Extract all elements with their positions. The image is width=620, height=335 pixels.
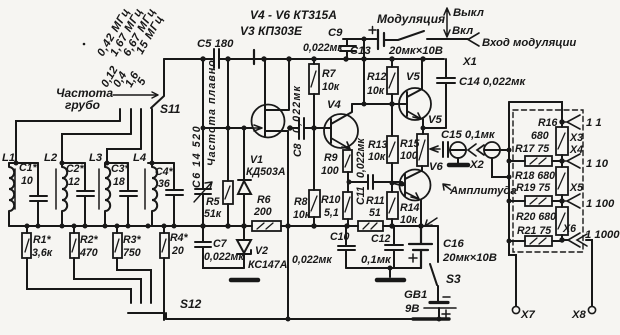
svg-text:С10: С10 xyxy=(330,231,350,243)
resistor R11 xyxy=(358,221,383,231)
ground under C10 C12 C16 xyxy=(377,278,404,283)
svg-text:10к: 10к xyxy=(400,214,418,226)
capacitor C4* xyxy=(166,163,183,226)
svg-text:10к: 10к xyxy=(322,81,340,93)
svg-text:С12: С12 xyxy=(371,233,391,245)
svg-text:грубо: грубо xyxy=(65,98,100,112)
svg-text:3,6к: 3,6к xyxy=(32,247,53,259)
transistor V6 xyxy=(400,170,431,201)
transistor V4 xyxy=(324,114,358,148)
capacitor C10 xyxy=(338,226,355,268)
attenuator input top wire xyxy=(509,102,562,122)
amplitude arrow xyxy=(443,184,451,190)
switch S3 xyxy=(430,264,437,285)
svg-text:0,1мк: 0,1мк xyxy=(361,254,392,266)
capacitor C11 xyxy=(348,175,402,189)
svg-text:КД503А: КД503А xyxy=(246,166,286,178)
svg-text:R2*: R2* xyxy=(80,234,99,246)
on/off arrow xyxy=(444,8,450,37)
resistor R15 potentiometer xyxy=(417,134,428,166)
inductor L2 xyxy=(62,163,67,226)
svg-text:С15 0,1мк: С15 0,1мк xyxy=(441,129,496,141)
capacitor C9 xyxy=(340,39,356,59)
diode V1 xyxy=(238,128,251,226)
svg-text:С3*: С3* xyxy=(111,163,130,175)
svg-text:С4*: С4* xyxy=(155,166,174,178)
svg-text:1 100: 1 100 xyxy=(586,198,615,210)
wire S11 to L3 xyxy=(107,149,141,163)
resistor R6 xyxy=(252,221,281,231)
svg-text:R19 75: R19 75 xyxy=(516,182,551,194)
amplitude arrow to emitter junction xyxy=(425,218,437,226)
svg-text:V4 - V6 КТ315А: V4 - V6 КТ315А xyxy=(250,8,337,22)
resistor R18 xyxy=(556,167,568,195)
svg-text:R7: R7 xyxy=(322,68,337,80)
svg-text:R6: R6 xyxy=(257,194,271,206)
wire S11 to L2 xyxy=(62,134,131,163)
svg-text:R5: R5 xyxy=(206,196,221,208)
svg-text:С6 14 520: С6 14 520 xyxy=(191,125,203,188)
svg-text:0,022мк: 0,022мк xyxy=(292,254,332,266)
svg-text:Х6: Х6 xyxy=(562,223,576,235)
svg-text:Вход модуляции: Вход модуляции xyxy=(482,37,576,49)
svg-text:0,022мк: 0,022мк xyxy=(355,138,367,178)
switch modulation xyxy=(384,31,468,40)
svg-text:Х4: Х4 xyxy=(569,144,583,156)
connector X1 fork xyxy=(468,33,479,46)
connector X2 plug xyxy=(450,142,466,158)
S11 contacts xyxy=(120,109,152,163)
resistor R19 xyxy=(525,196,552,206)
svg-text:750: 750 xyxy=(123,247,141,259)
ground under X2 plug xyxy=(457,158,459,164)
svg-text:0,022мк: 0,022мк xyxy=(291,85,303,133)
svg-text:С8: С8 xyxy=(292,143,304,157)
resistor R2* xyxy=(70,233,79,258)
svg-text:5,1: 5,1 xyxy=(324,207,339,219)
svg-text:С13: С13 xyxy=(350,45,371,57)
node L2 top xyxy=(62,162,85,164)
socket X6 fork node 1:1000 xyxy=(568,233,587,247)
svg-text:10: 10 xyxy=(21,175,33,187)
svg-text:V5: V5 xyxy=(406,71,421,83)
resistor R17 xyxy=(525,156,552,166)
svg-text:10к: 10к xyxy=(293,209,311,221)
svg-text:V2: V2 xyxy=(255,245,268,257)
svg-text:V5: V5 xyxy=(428,114,443,126)
capacitor C16 electrolytic xyxy=(409,226,432,268)
capacitor C15 xyxy=(443,142,450,157)
wire S11 to L1 xyxy=(16,121,120,163)
node L4 top xyxy=(148,162,174,164)
svg-text:R18 680: R18 680 xyxy=(515,170,555,182)
svg-text:L3: L3 xyxy=(89,152,103,164)
svg-text:V1: V1 xyxy=(250,154,263,166)
svg-text:0,022мк: 0,022мк xyxy=(204,251,244,263)
svg-text:V3 КП303Е: V3 КП303Е xyxy=(240,24,303,38)
svg-text:470: 470 xyxy=(79,247,98,259)
main mid rail y226 xyxy=(9,225,438,227)
svg-text:Выкл: Выкл xyxy=(453,7,484,19)
ground under V2 xyxy=(231,278,258,283)
svg-text:S12: S12 xyxy=(180,297,202,311)
svg-text:С2*: С2* xyxy=(66,163,85,175)
switch S11 wiper xyxy=(151,59,164,108)
svg-text:Х1: Х1 xyxy=(462,56,477,68)
svg-text:R13: R13 xyxy=(368,139,388,151)
switch S12 wiper xyxy=(128,306,166,320)
gate wire xyxy=(203,127,252,129)
svg-text:R4*: R4* xyxy=(170,232,189,244)
svg-text:20мк×10В: 20мк×10В xyxy=(442,252,497,264)
svg-text:51к: 51к xyxy=(204,208,222,220)
resistor R8 xyxy=(309,190,320,217)
svg-text:1 1000: 1 1000 xyxy=(585,229,620,241)
capacitor C14 xyxy=(437,59,455,128)
wire to X8 xyxy=(586,240,592,306)
capacitor C12 xyxy=(385,226,403,268)
svg-text:R3*: R3* xyxy=(123,234,142,246)
svg-text:R15: R15 xyxy=(400,138,421,150)
capacitor C5 xyxy=(214,49,219,68)
resistor R20 xyxy=(556,207,568,235)
resistor R13 xyxy=(387,136,398,163)
svg-text:С14 0,022мк: С14 0,022мк xyxy=(459,76,526,88)
capacitor C13 electrolytic xyxy=(378,30,384,49)
svg-text:L4: L4 xyxy=(133,152,147,164)
wire bottom caps node xyxy=(346,268,421,277)
svg-text:51: 51 xyxy=(369,207,381,219)
svg-text:R12: R12 xyxy=(367,71,387,83)
wire V4 collector rail xyxy=(352,103,400,105)
svg-text:18: 18 xyxy=(113,176,125,188)
resistor R10 xyxy=(343,192,352,219)
inductor L4 xyxy=(152,163,157,226)
resistor R14 xyxy=(387,192,398,219)
svg-text:680: 680 xyxy=(531,130,549,142)
svg-text:КС147А: КС147А xyxy=(248,259,287,271)
capacitor C1* xyxy=(30,163,47,226)
svg-text:12: 12 xyxy=(68,176,80,188)
node tick end of osc rail xyxy=(253,50,255,64)
resistor R4* xyxy=(160,233,169,258)
svg-text:S11: S11 xyxy=(160,102,181,116)
svg-text:С5 180: С5 180 xyxy=(197,38,234,50)
inductor L1 xyxy=(9,163,14,226)
attenuator ground bus xyxy=(509,102,516,306)
svg-text:Х2: Х2 xyxy=(469,159,485,171)
svg-text:V6: V6 xyxy=(429,161,444,173)
svg-text:9В: 9В xyxy=(405,303,419,315)
svg-text:100: 100 xyxy=(321,165,339,177)
resistor R16 xyxy=(556,127,568,155)
svg-text:Х7: Х7 xyxy=(520,309,536,321)
svg-text:20мк×10В: 20мк×10В xyxy=(388,45,443,57)
resistor R5 xyxy=(223,181,233,204)
resistor R1* xyxy=(22,233,31,258)
svg-text:R16: R16 xyxy=(538,117,558,129)
connector X2 socket xyxy=(484,142,500,158)
node L1 top xyxy=(9,162,38,164)
svg-text:С1*: С1* xyxy=(19,162,38,174)
chevrons xyxy=(468,144,484,156)
svg-text:С16: С16 xyxy=(443,238,464,250)
svg-text:С7: С7 xyxy=(213,238,228,250)
inductor L3 xyxy=(105,163,110,226)
wire rail59 tap to collector wire xyxy=(363,59,365,104)
svg-text:V4: V4 xyxy=(327,99,342,111)
svg-text:10к: 10к xyxy=(368,151,386,163)
socket X4 fork node 1:10 xyxy=(562,154,580,168)
capacitor C8 xyxy=(288,118,324,139)
wire riser mid rail to ground rail xyxy=(287,226,289,319)
FET V3 xyxy=(252,105,285,138)
svg-text:100: 100 xyxy=(400,150,418,162)
svg-text:R20 680: R20 680 xyxy=(516,211,556,223)
socket X3 fork node 1:1 xyxy=(562,115,580,129)
svg-text:S3: S3 xyxy=(446,272,461,286)
transistor V5 xyxy=(399,88,431,120)
svg-text:Вкл: Вкл xyxy=(452,25,473,37)
terminal X7 xyxy=(512,306,519,313)
svg-text:С9: С9 xyxy=(328,27,343,39)
svg-text:1 1: 1 1 xyxy=(586,117,602,129)
svg-text:Х5: Х5 xyxy=(569,182,584,194)
terminal X8 xyxy=(588,306,595,313)
svg-text:R14: R14 xyxy=(400,202,420,214)
svg-text:R11: R11 xyxy=(366,195,385,207)
wire rail to S3 xyxy=(437,226,439,262)
resistor R12 xyxy=(387,67,398,94)
resistor R21 xyxy=(525,236,552,246)
socket X5 fork node 1:100 xyxy=(562,194,580,208)
svg-text:Амплитуда: Амплитуда xyxy=(449,185,517,197)
zener V2 xyxy=(237,226,251,268)
svg-text:Х3: Х3 xyxy=(569,132,583,144)
variable capacitor C6 xyxy=(195,59,211,226)
svg-text:R17 75: R17 75 xyxy=(515,143,550,155)
svg-text:10к: 10к xyxy=(367,85,385,97)
wire top rail y59 xyxy=(164,58,444,60)
svg-text:R21 75: R21 75 xyxy=(517,225,552,237)
svg-text:Модуляция: Модуляция xyxy=(377,12,445,26)
capacitor C7 xyxy=(195,226,244,268)
battery GB1 xyxy=(437,286,439,301)
svg-text:R1*: R1* xyxy=(33,234,52,246)
svg-text:200: 200 xyxy=(253,206,272,218)
svg-text:36: 36 xyxy=(158,178,170,190)
resistor R3* xyxy=(113,233,122,258)
bottom ground rail xyxy=(166,318,449,320)
svg-text:Частота плавно: Частота плавно xyxy=(206,59,218,166)
svg-text:R9: R9 xyxy=(324,152,338,164)
capacitor C3* xyxy=(120,163,137,226)
resistor R9 xyxy=(343,150,352,172)
capacitor C2* xyxy=(77,163,94,226)
wire C9 to C13 xyxy=(343,39,377,59)
dashed box xyxy=(513,110,583,252)
svg-text:R10: R10 xyxy=(321,194,341,206)
node L3 top xyxy=(105,162,128,164)
svg-text:20: 20 xyxy=(171,245,184,257)
svg-text:R8: R8 xyxy=(294,196,308,208)
resistor R7 xyxy=(309,64,319,94)
svg-text:L2: L2 xyxy=(44,152,58,164)
svg-text:0,022мк: 0,022мк xyxy=(303,42,343,54)
svg-text:L1: L1 xyxy=(2,152,15,164)
svg-text:Х8: Х8 xyxy=(571,309,587,321)
svg-text:GB1: GB1 xyxy=(404,289,427,301)
svg-text:1 10: 1 10 xyxy=(586,158,609,170)
